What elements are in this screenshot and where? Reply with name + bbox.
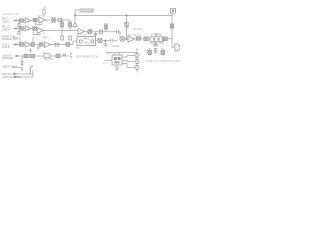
svg-text:OPTICAL SPDIF: OPTICAL SPDIF (2, 75, 22, 79)
svg-text:OP27: OP27 (42, 53, 48, 55)
svg-text:BOOST AMP: BOOST AMP (151, 42, 165, 45)
svg-text:NOTE: ALL CAPS X7R 16V 10%: NOTE: ALL CAPS X7R 16V 10% (146, 60, 180, 63)
svg-text:DAC: DAC (84, 40, 90, 44)
svg-text:USB POWER: USB POWER (2, 64, 18, 68)
svg-text:LINE R: LINE R (2, 27, 10, 31)
svg-text:VDD AVDD3: VDD AVDD3 (81, 9, 95, 12)
svg-text:CD/TAPE: CD/TAPE (2, 56, 13, 60)
svg-text:CN1 MIC IN J2: CN1 MIC IN J2 (2, 13, 19, 16)
svg-text:I2S DATA BUS SCLK: I2S DATA BUS SCLK (76, 55, 99, 58)
svg-text:10k R3: 10k R3 (37, 15, 45, 17)
svg-text:MCLK: MCLK (103, 63, 110, 65)
svg-text:C14 10u: C14 10u (134, 28, 144, 31)
svg-text:U2: U2 (107, 52, 111, 56)
svg-text:U1 PCM29: U1 PCM29 (77, 35, 88, 37)
svg-text:ADC: ADC (84, 37, 90, 41)
svg-text:GND: GND (76, 48, 81, 50)
svg-text:AUX R: AUX R (2, 45, 10, 49)
svg-text:LINE L: LINE L (2, 19, 10, 23)
svg-text:R16 22R C25: R16 22R C25 (128, 34, 142, 36)
svg-text:POWER 12V: POWER 12V (2, 37, 17, 41)
svg-text:AGND: AGND (112, 44, 120, 48)
svg-text:VREF+: VREF+ (42, 37, 50, 39)
svg-text:R12 470: R12 470 (45, 59, 54, 61)
svg-text:U3 LM4880: U3 LM4880 (150, 35, 163, 37)
